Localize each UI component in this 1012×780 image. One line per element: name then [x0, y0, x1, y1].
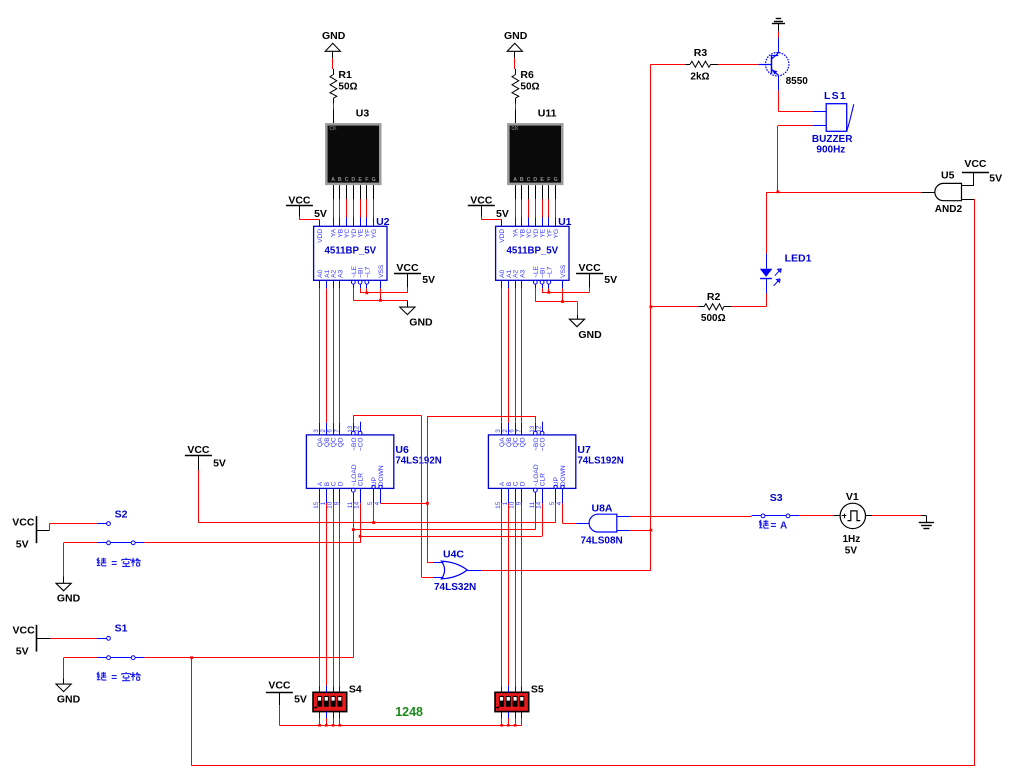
wire ~LOAD net U6 U7 to S1	[353, 503, 535, 658]
switch S1 key=space	[97, 623, 145, 660]
A B C D pin stubs	[502, 488, 522, 503]
wire	[366, 185, 368, 199]
earth ground above Q1 (flipped)	[772, 19, 785, 32]
wire BCD bus U1 to U7	[502, 288, 522, 423]
svg-text:D: D	[519, 481, 526, 486]
wire U8A input B to alarm net	[617, 530, 651, 532]
svg-text:5V: 5V	[845, 545, 858, 556]
power VCC 5V for S1	[13, 625, 51, 658]
A B C D pin stubs	[320, 488, 340, 503]
power VCC 5V for U5	[962, 158, 1002, 186]
svg-text:74LS192N: 74LS192N	[577, 455, 623, 466]
svg-text:S4: S4	[349, 683, 362, 695]
pin numbers 15 1 10 9 11 14 5 4	[313, 501, 381, 508]
wire pin A2	[515, 280, 517, 288]
wire S1 output to ~LOAD net	[144, 657, 353, 659]
svg-text:LED1: LED1	[785, 253, 812, 265]
power VCC 5V for U1 blanking pins	[576, 262, 617, 288]
wire pin A0	[501, 280, 503, 288]
svg-text:S1: S1	[115, 623, 128, 635]
wire	[515, 185, 517, 199]
wire	[346, 199, 348, 218]
svg-text:VCC: VCC	[12, 516, 35, 528]
svg-text:5V: 5V	[604, 274, 617, 286]
wire pin A0	[319, 280, 321, 288]
wire buzzer return to alarm output line	[778, 126, 827, 192]
junction	[332, 724, 335, 727]
wire	[515, 218, 517, 227]
junction	[426, 502, 429, 505]
junction	[339, 724, 342, 727]
svg-text:U5: U5	[941, 170, 955, 182]
wire pin A3	[339, 280, 341, 288]
wire VCC to DIP common rail	[279, 705, 521, 725]
wire	[332, 51, 334, 58]
wire	[360, 488, 362, 503]
ground	[504, 30, 528, 42]
ground GND symbol top of R6	[507, 43, 522, 51]
wire	[535, 218, 537, 227]
ground	[322, 30, 346, 42]
svg-text:E: E	[540, 177, 544, 183]
wire VCC to S1 throw	[50, 638, 96, 640]
wire	[373, 185, 375, 199]
ground GND symbol U2 GND	[400, 307, 415, 315]
wire	[360, 218, 362, 227]
~LOAD pin bubble and stub	[351, 488, 355, 503]
OR gate U4C 74LS32N	[434, 549, 476, 593]
wire pin A1	[508, 280, 510, 288]
wire U8A output to U7 DOWN	[563, 503, 590, 523]
junction	[325, 724, 328, 727]
wire	[521, 218, 523, 227]
svg-text:LS1: LS1	[824, 90, 847, 102]
wire S2 common to GND	[64, 543, 97, 584]
junction	[379, 299, 382, 302]
wire	[555, 199, 557, 218]
IC U7 74LS192N up/down BCD counter	[488, 435, 623, 489]
wire	[514, 51, 516, 58]
wire	[333, 104, 335, 110]
svg-text:74LS08N: 74LS08N	[581, 536, 623, 547]
IC U1 4511BP_5V BCD to 7-seg decoder	[496, 216, 572, 280]
svg-text:VCC: VCC	[964, 158, 987, 170]
svg-text:VSS: VSS	[560, 264, 567, 278]
svg-text:5V: 5V	[213, 457, 226, 469]
wire U5 output / alarm line	[766, 192, 935, 254]
svg-text:YG: YG	[371, 229, 378, 239]
wire	[353, 185, 355, 199]
wire	[535, 284, 537, 288]
wire VCC to UP pins of U6 U7	[198, 470, 555, 523]
wire	[555, 218, 557, 227]
svg-text:E: E	[358, 177, 362, 183]
inverted pin bubble	[547, 280, 551, 284]
AND gate U8A 74LS08N	[581, 503, 623, 547]
svg-text:5V: 5V	[422, 274, 435, 286]
junction	[359, 535, 362, 538]
svg-text:U7: U7	[577, 444, 591, 456]
svg-text:U8A: U8A	[592, 503, 613, 515]
wire S1 common to GND	[64, 658, 97, 685]
svg-text:74LS192N: 74LS192N	[395, 455, 441, 466]
svg-text:5V: 5V	[314, 208, 327, 220]
~LOAD pin bubble and stub	[533, 488, 537, 503]
svg-text:4: 4	[374, 501, 381, 505]
svg-text:A3: A3	[519, 270, 526, 278]
earth ground at V1	[919, 516, 934, 529]
svg-text:A: A	[780, 521, 787, 532]
ground GND symbol S1 GND	[56, 684, 71, 692]
svg-text:QD: QD	[519, 437, 526, 447]
7-segment display U3	[325, 108, 381, 186]
UP pin bubble and stub	[372, 485, 375, 503]
wire	[542, 199, 544, 218]
svg-text:G: G	[372, 177, 376, 183]
IC U2 4511BP_5V BCD to 7-seg decoder	[314, 216, 390, 280]
wire	[333, 185, 335, 199]
DOWN pin bubble and stub	[379, 485, 382, 503]
svg-text:D: D	[533, 177, 537, 183]
junction	[561, 300, 564, 303]
svg-text:G: G	[554, 177, 558, 183]
wire	[548, 199, 550, 218]
buzzer LS1 900Hz	[812, 90, 854, 155]
junction	[507, 724, 510, 727]
wire	[514, 58, 516, 69]
svg-text:4511BP_5V: 4511BP_5V	[324, 245, 376, 256]
label key = A	[759, 520, 787, 532]
wire to ground	[577, 302, 579, 320]
svg-text:QD: QD	[337, 437, 344, 447]
wire U8A input A to S3	[617, 516, 752, 518]
wire S2 output to CLR net	[144, 542, 360, 544]
wire Q1 collector to buzzer	[778, 75, 826, 111]
wire	[339, 199, 341, 218]
svg-text:S3: S3	[770, 492, 783, 504]
wire	[555, 185, 557, 199]
wire	[339, 218, 341, 227]
svg-text:A: A	[331, 177, 335, 183]
svg-text:DOWN: DOWN	[560, 465, 567, 486]
wire ~LE VSS to GND	[535, 288, 577, 301]
svg-text:F: F	[547, 177, 550, 183]
wire to ground	[407, 300, 409, 307]
junction	[650, 305, 653, 308]
wire	[548, 185, 550, 199]
svg-text:VCC: VCC	[396, 262, 419, 274]
wire bottom rail	[192, 765, 975, 767]
label preset weights 1248	[395, 705, 423, 719]
svg-text:A: A	[513, 177, 517, 183]
wire VCC to VDD	[481, 217, 501, 227]
wire U7 ~BO to U6 DOWN and U4C input A	[381, 416, 536, 563]
wire	[366, 199, 368, 218]
wire	[360, 284, 362, 288]
wire VCC to S2 throw	[49, 524, 96, 531]
~BO pin bubble and stub	[351, 423, 355, 435]
svg-text:~L7: ~L7	[364, 266, 371, 278]
svg-text:14: 14	[354, 501, 361, 508]
wire	[339, 185, 341, 199]
svg-text:S2: S2	[115, 509, 128, 521]
junction	[372, 521, 375, 524]
svg-text:74LS32N: 74LS32N	[434, 582, 476, 593]
svg-text:5V: 5V	[16, 646, 29, 658]
wire R2 to alarm net	[651, 306, 698, 308]
wire U6 ~BO to U4C input B	[353, 416, 433, 578]
junction	[190, 656, 193, 659]
wire	[515, 109, 517, 123]
svg-text:5V: 5V	[989, 172, 1002, 184]
svg-text:D: D	[351, 177, 355, 183]
wire	[528, 185, 530, 199]
~BO pin bubble and stub	[533, 423, 537, 435]
svg-text:VCC: VCC	[579, 262, 602, 274]
label key = space	[97, 672, 141, 684]
wire U5 input A to VCC	[962, 185, 974, 187]
wire alarm net to R3	[651, 64, 686, 66]
svg-text:=: =	[111, 559, 117, 570]
junction	[500, 724, 503, 727]
svg-text:B: B	[520, 177, 524, 183]
svg-text:CK: CK	[329, 126, 337, 132]
svg-text:VSS: VSS	[378, 264, 385, 278]
svg-text:GND: GND	[57, 694, 81, 706]
svg-text:GND: GND	[322, 30, 346, 42]
power VCC 5V for U1 VDD	[468, 195, 509, 220]
wire U7 A-D to S5	[502, 503, 522, 686]
wire S1 net down to bottom rail	[191, 658, 193, 766]
svg-text:C: C	[345, 177, 349, 183]
transistor Q1 8550 PNP	[759, 52, 809, 87]
wire pin VSS	[380, 280, 382, 288]
wire U4C output to alarm net	[467, 64, 651, 570]
svg-text:1Hz: 1Hz	[843, 534, 861, 545]
wire	[346, 218, 348, 227]
junction	[365, 292, 368, 295]
switch S3 key=A	[752, 492, 800, 518]
pin numbers 3 2 6 7	[495, 425, 542, 432]
svg-text:=: =	[771, 521, 777, 532]
wire	[535, 185, 537, 199]
svg-text:14: 14	[536, 501, 543, 508]
svg-text:5V: 5V	[294, 694, 307, 706]
svg-text:50Ω: 50Ω	[338, 82, 357, 93]
wire	[373, 199, 375, 218]
AND gate U5 AND2	[935, 170, 963, 215]
wire	[548, 218, 550, 227]
wire	[333, 218, 335, 227]
svg-text:~CO: ~CO	[358, 437, 365, 451]
svg-text:R1: R1	[338, 69, 352, 81]
pin numbers 3 2 6 7	[313, 425, 361, 432]
wire	[542, 218, 544, 227]
svg-text:U6: U6	[395, 444, 409, 456]
QA-QD pin stubs	[502, 423, 522, 435]
svg-text:CLR: CLR	[358, 473, 365, 486]
svg-text:VDD: VDD	[317, 229, 324, 243]
wire pin A2	[333, 280, 335, 288]
label key = space	[97, 558, 141, 570]
wire CLR net U6 U7 to S2	[360, 503, 542, 543]
wire	[366, 218, 368, 227]
svg-text:VCC: VCC	[268, 680, 291, 692]
wire	[360, 199, 362, 218]
svg-text:YG: YG	[553, 229, 560, 239]
wire S3 to V1	[799, 515, 833, 517]
wire ~BI ~L7 to VCC	[542, 288, 590, 293]
DIP switch S4	[313, 683, 362, 711]
svg-text:U2: U2	[376, 216, 390, 228]
7-segment display U11	[507, 108, 563, 186]
S4 pin stubs	[320, 686, 340, 726]
resistor R1 50&#937;	[330, 69, 358, 104]
wire	[353, 284, 355, 288]
svg-text:GND: GND	[57, 593, 81, 605]
ground GND symbol U1 GND	[569, 319, 584, 327]
wire	[542, 185, 544, 199]
svg-text:A3: A3	[337, 270, 344, 278]
IC U6 74LS192N up/down BCD counter	[306, 435, 441, 489]
svg-text:U4C: U4C	[443, 549, 464, 561]
svg-text:5V: 5V	[16, 539, 29, 551]
wire U5 input B down right side	[962, 199, 975, 766]
wire	[346, 185, 348, 199]
wire	[373, 218, 375, 227]
svg-text:DOWN: DOWN	[378, 465, 385, 486]
svg-text:B: B	[338, 177, 342, 183]
power VCC 5V for UP pins	[185, 444, 226, 470]
wire VCC to VDD	[299, 217, 319, 227]
svg-text:5V: 5V	[496, 208, 509, 220]
svg-text:~CO: ~CO	[540, 437, 547, 451]
svg-text:D: D	[337, 481, 344, 486]
~CO pin bubble and stub (unconnected)	[358, 422, 362, 435]
svg-text:S5: S5	[531, 683, 544, 695]
wire R3 to Q1 base	[718, 64, 758, 66]
inverted pin bubble	[365, 280, 369, 284]
svg-text:~L7: ~L7	[546, 266, 553, 278]
wire	[353, 218, 355, 227]
wire	[521, 199, 523, 218]
svg-text:2kΩ: 2kΩ	[690, 72, 709, 83]
svg-text:GND: GND	[409, 316, 433, 328]
svg-text:U1: U1	[558, 216, 572, 228]
svg-text:CK: CK	[511, 126, 519, 132]
wire pin VSS	[562, 280, 564, 288]
wire ~LE VSS to GND	[353, 288, 407, 300]
junction	[318, 724, 321, 727]
resistor R6 50&#937;	[512, 69, 540, 104]
svg-text:4: 4	[556, 501, 563, 505]
wire pin A3	[521, 280, 523, 288]
wire	[542, 488, 544, 503]
svg-text:4511BP_5V: 4511BP_5V	[506, 245, 558, 256]
QA-QD pin stubs	[320, 423, 340, 435]
wire	[528, 199, 530, 218]
~CO pin bubble and stub (unconnected)	[540, 422, 544, 435]
svg-text:F: F	[365, 177, 368, 183]
LED LED1	[760, 253, 812, 294]
junction	[777, 190, 780, 193]
junction	[547, 291, 550, 294]
svg-text:U3: U3	[356, 108, 370, 120]
wire pin A1	[326, 280, 328, 288]
ground GND symbol S2 GND	[56, 583, 71, 591]
svg-text:V1: V1	[846, 491, 859, 503]
power VCC 5V for U2 blanking pins	[394, 262, 435, 288]
ground GND symbol top of R1	[325, 43, 340, 51]
DIP switch S5	[495, 683, 544, 711]
wire BCD bus U2 to U6	[320, 288, 340, 423]
junction	[514, 724, 517, 727]
svg-text:R3: R3	[694, 47, 708, 59]
wire	[353, 199, 355, 218]
wire	[332, 58, 334, 69]
wire	[515, 199, 517, 218]
S5 pin stubs	[502, 686, 522, 726]
junction	[352, 528, 355, 531]
svg-text:=: =	[111, 673, 117, 684]
svg-text:U11: U11	[538, 108, 557, 120]
svg-text:GND: GND	[578, 329, 602, 341]
wire	[333, 199, 335, 218]
svg-text:CLR: CLR	[540, 473, 547, 486]
wire U4C input stubs	[434, 563, 444, 578]
svg-text:900Hz: 900Hz	[816, 144, 845, 155]
resistor R3 2k&#937;	[685, 47, 718, 82]
wire	[548, 284, 550, 288]
wire LED1 to R2	[731, 294, 766, 307]
inverted pin bubble	[540, 280, 544, 284]
UP pin bubble and stub	[554, 485, 557, 503]
power VCC 5V for U2 VDD	[286, 195, 327, 220]
clock source V1 1Hz 5V	[833, 491, 872, 556]
wire V1 to earth	[872, 515, 921, 517]
svg-text:VDD: VDD	[499, 229, 506, 243]
svg-text:GND: GND	[504, 30, 528, 42]
wire	[542, 284, 544, 288]
pin numbers 15 1 10 9 11 14 5 4	[495, 501, 563, 508]
resistor R2 500&#937;	[698, 291, 731, 324]
svg-text:R2: R2	[707, 291, 721, 303]
wire	[528, 218, 530, 227]
svg-text:AND2: AND2	[935, 204, 963, 215]
DOWN pin bubble and stub	[561, 485, 564, 503]
inverted pin bubble	[358, 280, 362, 284]
svg-text:1248: 1248	[395, 705, 423, 719]
inverted pin bubble	[533, 280, 537, 284]
power VCC 5V for DIP switches	[266, 680, 307, 706]
wire ~BI ~L7 to VCC	[360, 288, 407, 293]
junction	[650, 529, 653, 532]
wire U6 A-D to S4	[320, 503, 340, 686]
wire	[333, 109, 335, 123]
wire	[521, 185, 523, 199]
switch S2 key=space	[97, 509, 145, 545]
wire	[515, 104, 517, 110]
svg-text:C: C	[527, 177, 531, 183]
svg-text:VCC: VCC	[13, 625, 36, 637]
wire	[366, 284, 368, 288]
wire	[535, 199, 537, 218]
wire earth to Q1 emitter	[778, 31, 780, 53]
svg-text:R6: R6	[520, 69, 534, 81]
inverted pin bubble	[351, 280, 355, 284]
svg-text:VCC: VCC	[187, 444, 210, 456]
wire	[360, 185, 362, 199]
